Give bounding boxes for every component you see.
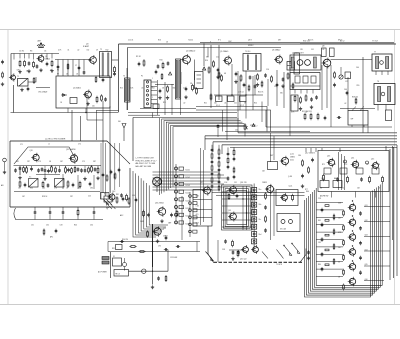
svg-text:C73: C73	[38, 161, 41, 163]
svg-text:S1c: S1c	[259, 219, 262, 221]
capacitor C10	[157, 64, 160, 68]
svg-text:R21: R21	[204, 103, 207, 105]
fm lower row2	[19, 180, 91, 188]
wire FM rail	[14, 165, 102, 167]
svg-text:.01: .01	[224, 103, 226, 105]
svg-text:ANT: ANT	[38, 40, 42, 43]
block rungs	[193, 196, 212, 225]
wire fm inner drops	[20, 166, 98, 175]
resistor R12	[192, 84, 194, 91]
resistor R46	[232, 240, 234, 247]
svg-text:Q-TECO FM TUNER: Q-TECO FM TUNER	[45, 138, 66, 140]
label Q3	[83, 44, 90, 49]
switch chain right	[175, 167, 184, 224]
capacitor C96	[157, 276, 160, 280]
resistor R21	[294, 95, 296, 102]
transistor Q14 r2	[351, 160, 359, 170]
resistor R45	[292, 194, 294, 201]
svg-text:T3: T3	[123, 76, 125, 78]
svg-text:6K: 6K	[224, 73, 227, 75]
svg-text:C12: C12	[216, 57, 219, 59]
wire bus y42 right	[300, 42, 394, 44]
label VC	[216, 105, 244, 107]
resistor R16	[221, 74, 223, 81]
IF transformer T2	[100, 52, 112, 78]
svg-text:C9: C9	[96, 50, 98, 52]
svg-text:5K: 5K	[49, 161, 52, 163]
svg-text:.05: .05	[141, 88, 143, 90]
svg-text:T1: T1	[17, 76, 19, 78]
resistor R95	[147, 230, 149, 237]
IF transformer T5	[243, 54, 261, 72]
svg-text:SP 16: SP 16	[338, 40, 342, 42]
transistor Q4 conv	[181, 54, 190, 65]
resistor R7c	[101, 94, 103, 101]
oscillator coil T1	[17, 76, 28, 86]
svg-text:10P: 10P	[60, 161, 63, 163]
wire left col mid	[203, 43, 205, 66]
svg-text:L-TYPE TUNING UNIT: L-TYPE TUNING UNIT	[136, 158, 155, 160]
capacitor C8c	[104, 97, 107, 101]
speaker arrow S1	[283, 245, 292, 256]
label module	[292, 52, 304, 55]
resistor R31	[97, 167, 99, 174]
wire knot to U	[212, 193, 305, 196]
label values AM	[17, 70, 52, 73]
svg-text:6V 0.3A: 6V 0.3A	[280, 228, 287, 231]
wire fm mid rail2	[36, 174, 60, 176]
capacitor C2	[28, 61, 31, 65]
resistor R47	[237, 250, 239, 257]
svg-text:22P: 22P	[27, 161, 30, 163]
wire x168 vert	[167, 250, 169, 271]
resistor R7b	[96, 96, 98, 103]
svg-text:Q13: Q13	[327, 156, 330, 158]
svg-text:2.2K: 2.2K	[338, 203, 342, 205]
component chain x219	[218, 148, 221, 184]
capacitor C13	[217, 68, 220, 72]
wire vert x96	[96, 110, 98, 140]
svg-text:C18 .02: C18 .02	[238, 92, 244, 94]
svg-text:Q29: Q29	[163, 228, 166, 230]
ground G19	[96, 176, 99, 180]
mid band extra labels	[238, 92, 283, 95]
svg-text:T2: T2	[100, 49, 102, 51]
wire y60 right	[331, 59, 373, 61]
svg-text:330: 330	[280, 93, 283, 95]
resistor fm extra2	[71, 167, 73, 174]
svg-text:R55: R55	[357, 85, 360, 87]
label P1 pins	[141, 76, 153, 100]
svg-text:R10: R10	[160, 60, 163, 62]
capacitor C18	[310, 97, 313, 101]
component stack column	[252, 188, 257, 244]
label stack	[259, 189, 262, 236]
wire y108 right	[340, 108, 375, 110]
capacitor C35	[360, 177, 363, 181]
svg-text:Q18: Q18	[240, 182, 243, 184]
svg-text:C99 30MF: C99 30MF	[170, 257, 177, 259]
svg-text:Q12 2SB171: Q12 2SB171	[305, 153, 315, 155]
small box B6	[116, 245, 123, 250]
label Q16	[155, 203, 164, 205]
svg-text:R28 5K: R28 5K	[42, 196, 48, 198]
labels under rail drops	[57, 74, 79, 76]
svg-text:R82: R82	[318, 220, 321, 222]
resistor R30	[91, 165, 93, 172]
capacitor C11	[159, 89, 162, 93]
resistor R23	[305, 94, 307, 101]
ground G15	[299, 107, 302, 111]
label texture fm row2	[18, 188, 93, 190]
output transformer T8	[374, 81, 395, 105]
wire x274 drop c	[273, 188, 275, 236]
chain resistors left	[343, 210, 345, 291]
label FM vals	[22, 196, 91, 199]
label left edge	[1, 184, 4, 187]
svg-text:B201: B201	[104, 194, 108, 196]
svg-text:Q-51: Q-51	[289, 186, 293, 188]
capacitor C97	[165, 236, 168, 240]
stage box Q4a	[56, 76, 110, 108]
wire bus line 2	[205, 135, 397, 137]
svg-text:5MF: 5MF	[168, 223, 171, 225]
transformer box B9	[114, 270, 129, 277]
wire T1 out	[28, 77, 36, 82]
rung resistors	[325, 205, 329, 266]
component D1 diode	[61, 94, 67, 97]
transistor Q18b	[265, 184, 274, 194]
wire x270 drop c	[270, 185, 272, 240]
label bottom c	[222, 249, 247, 261]
svg-text:S1a: S1a	[259, 189, 262, 191]
page bottom edge	[0, 304, 400, 306]
wire top bus B	[128, 47, 282, 49]
svg-text:C34: C34	[90, 225, 93, 227]
wire fm top labels	[20, 144, 81, 147]
label Q8	[322, 46, 324, 48]
wire x368 vert	[367, 125, 369, 133]
capacitor C17	[282, 77, 285, 81]
cluster left col r	[301, 158, 314, 188]
svg-text:R-208: R-208	[186, 223, 190, 225]
wire y106 pair	[196, 107, 271, 132]
capacitor C32	[324, 116, 327, 120]
wire y242 rail	[108, 241, 200, 243]
svg-text:R3: R3	[30, 51, 32, 53]
ground G17	[43, 177, 46, 181]
dot J1	[152, 241, 153, 252]
wire x238 vert	[237, 71, 239, 133]
label T5	[245, 51, 250, 53]
side column comps	[264, 192, 267, 232]
label fm out	[104, 194, 135, 198]
svg-text:R61: R61	[16, 161, 19, 163]
svg-text:C98: C98	[222, 249, 225, 251]
resistor R32	[126, 194, 128, 201]
resistor R17	[240, 74, 242, 81]
label texture row5	[206, 57, 219, 59]
component left edge	[3, 158, 7, 174]
svg-text:R-201: R-201	[186, 170, 190, 172]
ground G16	[18, 176, 21, 180]
svg-text:220: 220	[244, 182, 247, 184]
small box B7	[113, 256, 122, 266]
resistor R7d	[95, 76, 97, 83]
nested rect block	[222, 185, 253, 230]
svg-text:150: 150	[274, 86, 277, 88]
transistor Q5 am conv	[223, 55, 232, 65]
svg-text:220: 220	[338, 217, 341, 219]
diode arrows D4	[107, 204, 116, 209]
resistor R35	[310, 113, 312, 120]
svg-text:AC POWER: AC POWER	[98, 271, 108, 274]
wire am bottom	[36, 87, 50, 89]
label det vals	[291, 112, 307, 114]
svg-text:1.5K: 1.5K	[224, 182, 228, 184]
wire under box drops	[332, 192, 376, 198]
svg-text:1K: 1K	[60, 102, 63, 104]
svg-text:1K: 1K	[76, 74, 79, 76]
meter pair M1	[280, 220, 293, 231]
label row AM top	[19, 51, 46, 53]
resistor R43	[129, 246, 136, 248]
label chain col	[186, 170, 190, 226]
svg-text:Q6 2SA12: Q6 2SA12	[272, 49, 280, 52]
small box VC1a	[216, 96, 223, 102]
label T2	[100, 49, 102, 51]
diagonal dash right end	[300, 249, 306, 263]
svg-text:C64: C64	[356, 67, 359, 69]
tuning gang VC3	[55, 179, 65, 188]
svg-text:R77: R77	[305, 189, 308, 191]
svg-text:Q8: Q8	[322, 46, 324, 48]
diagonal arrow A3	[262, 252, 268, 259]
dash cluster mid	[229, 250, 243, 260]
diagonal into dash	[208, 254, 214, 262]
wire box x133	[133, 118, 159, 162]
svg-text:1.5K: 1.5K	[196, 206, 200, 208]
wire y112 rail	[128, 112, 237, 114]
antenna ANT1 loopstick	[37, 40, 45, 48]
wire row drops	[35, 207, 94, 220]
transistor Q15 r3	[371, 161, 379, 170]
fm extra col3	[67, 166, 83, 173]
svg-text:8.2K: 8.2K	[196, 196, 200, 198]
svg-text:R64: R64	[71, 161, 74, 163]
capacitor C34b	[336, 177, 339, 181]
svg-text:R7: R7	[57, 74, 59, 76]
wire x290 vert	[289, 70, 291, 136]
svg-text:AN: AN	[1, 184, 4, 187]
capacitor C40	[224, 239, 227, 243]
svg-text:100: 100	[214, 103, 217, 105]
small box S2	[70, 98, 77, 104]
wire top rail AM	[11, 53, 59, 55]
svg-text:AFC: AFC	[50, 236, 54, 239]
label right box2	[305, 189, 329, 198]
svg-text:T8: T8	[377, 81, 379, 83]
svg-text:4.7K: 4.7K	[291, 112, 295, 114]
svg-text:C21: C21	[234, 103, 237, 105]
svg-text:C12 05: C12 05	[128, 40, 133, 42]
capacitor C99	[307, 250, 310, 259]
wire power left edge	[110, 252, 112, 278]
capacitor C8d	[102, 78, 105, 82]
label inner vals	[320, 188, 381, 190]
capacitor C37	[170, 213, 173, 217]
svg-text:56: 56	[338, 262, 340, 264]
triangle marker	[203, 67, 206, 70]
wire x86 down	[85, 108, 86, 113]
mid band extra comps	[243, 81, 294, 92]
svg-text:Q11 2SA230: Q11 2SA230	[66, 148, 76, 151]
svg-text:R66: R66	[30, 188, 33, 190]
svg-text:150: 150	[87, 50, 90, 52]
svg-text:C82: C82	[333, 164, 336, 166]
svg-text:R24: R24	[254, 103, 257, 105]
svg-text:AM-FM SW: AM-FM SW	[320, 195, 329, 198]
resistor R41	[143, 210, 145, 217]
resistor R4	[51, 60, 53, 67]
resistor R34	[304, 113, 306, 120]
svg-text:C51: C51	[311, 49, 314, 51]
svg-text:Q15: Q15	[371, 159, 374, 161]
svg-text:F1: F1	[113, 256, 115, 258]
svg-text:OSC: OSC	[112, 191, 116, 193]
label Q6	[272, 49, 280, 52]
transistor Q18	[228, 185, 237, 195]
svg-text:C95: C95	[158, 246, 161, 248]
wire long vert x110	[109, 106, 111, 192]
page left edge	[7, 30, 9, 304]
wire chains top	[212, 145, 234, 152]
capacitor C29	[62, 210, 65, 214]
svg-text:.02: .02	[77, 50, 79, 52]
label Q10	[30, 150, 33, 152]
svg-text:Q5 2SA49: Q5 2SA49	[220, 50, 228, 53]
knot extra verts	[243, 186, 247, 230]
nested corners ll	[133, 171, 168, 237]
label texture knot	[224, 182, 247, 184]
chain labels	[365, 205, 368, 281]
label texture row4	[300, 49, 324, 51]
svg-text:L1: L1	[48, 144, 50, 146]
label C55	[235, 130, 238, 132]
svg-text:.05: .05	[366, 164, 368, 166]
IF module box lower	[290, 73, 320, 90]
wire bus line 4	[213, 141, 397, 143]
svg-text:R14: R14	[205, 60, 208, 62]
svg-text:IF 2: IF 2	[218, 40, 221, 42]
wire main vert x152	[152, 224, 154, 267]
wire FM rail2	[14, 191, 100, 193]
ground G4	[50, 69, 53, 73]
knot dots	[242, 191, 255, 227]
tall box right mid	[291, 95, 298, 111]
capacitor fm extra3	[77, 167, 80, 171]
svg-text:BT: BT	[346, 81, 348, 83]
resistor R8	[114, 66, 116, 73]
wire x152 tail	[152, 267, 153, 285]
svg-text:Q-60: Q-60	[321, 178, 325, 180]
chain value labels	[338, 203, 342, 279]
knot extra rungs	[222, 192, 252, 227]
svg-text:470: 470	[196, 214, 199, 216]
diagonal arrow A2	[206, 252, 214, 261]
svg-text:C7: C7	[75, 65, 77, 67]
capacitor C3	[46, 62, 49, 66]
wire drop x181	[180, 72, 182, 84]
svg-text:.02: .02	[183, 103, 185, 105]
resistor R2	[24, 60, 26, 67]
label Q4	[186, 50, 195, 53]
resistor R27	[26, 166, 28, 173]
small box det	[262, 162, 278, 173]
wire x246 vert	[245, 101, 247, 119]
ground G8	[166, 96, 169, 100]
component CB	[123, 258, 127, 271]
label AC	[98, 271, 108, 274]
label rails	[122, 239, 161, 248]
capacitor C8b	[113, 72, 116, 76]
power plug PS1	[102, 257, 109, 265]
svg-text:DET: DET	[278, 40, 281, 42]
wire x322 vert	[321, 65, 323, 110]
ground G13	[281, 84, 284, 88]
wire fm right bundle	[101, 143, 119, 199]
resistor R29	[65, 166, 67, 173]
svg-text:C78: C78	[54, 188, 57, 190]
wire x363 drop	[362, 57, 364, 133]
wire left drop AM	[10, 54, 12, 77]
wire rail drops long	[58, 60, 84, 77]
page right edge	[394, 30, 396, 304]
svg-text:S1d: S1d	[259, 234, 262, 236]
wire top box left edge	[265, 110, 267, 127]
ground G9	[184, 95, 187, 99]
small box fm	[101, 193, 110, 200]
label texture ladder	[318, 198, 322, 266]
wire x227 vert	[226, 95, 228, 140]
wire drop x195	[194, 60, 196, 81]
resistor R9	[143, 59, 145, 66]
svg-text:T7: T7	[374, 52, 376, 54]
switch chain 2	[189, 195, 197, 234]
wire x270 up	[271, 133, 275, 162]
resistor R13	[196, 87, 198, 94]
wire y115 rail long	[11, 112, 119, 114]
text block note	[136, 158, 157, 168]
output transformer T7	[372, 52, 392, 72]
component chain x212	[211, 148, 214, 184]
dot mid1	[231, 94, 246, 95]
arc left edge	[14, 208, 16, 219]
wire chain spine	[175, 164, 177, 224]
ground G18	[83, 177, 86, 181]
svg-text:R60: R60	[306, 191, 309, 193]
speaker box SP1	[348, 107, 368, 126]
resistor R10	[162, 62, 164, 69]
ladder rungs	[317, 203, 344, 277]
wire vert x87	[87, 94, 103, 120]
label right top	[303, 41, 378, 43]
svg-text:1K: 1K	[66, 188, 69, 190]
svg-text:01: 01	[68, 50, 70, 52]
ground G11	[234, 80, 237, 84]
transistor Q13 r1	[327, 158, 335, 168]
resistor R42	[176, 210, 178, 217]
